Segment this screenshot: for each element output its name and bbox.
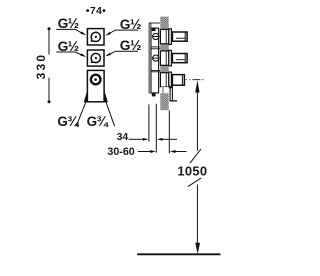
svg-text:30-60: 30-60 xyxy=(107,146,134,158)
svg-text:G½: G½ xyxy=(120,17,141,32)
svg-text:G¾: G¾ xyxy=(87,114,110,129)
svg-text:G½: G½ xyxy=(120,38,141,53)
svg-text:1050: 1050 xyxy=(177,163,207,178)
svg-text:•74•: •74• xyxy=(86,5,106,17)
svg-text:G½: G½ xyxy=(58,16,79,31)
svg-text:330: 330 xyxy=(34,53,48,80)
svg-text:G¾: G¾ xyxy=(57,114,80,129)
svg-text:34: 34 xyxy=(117,131,129,143)
